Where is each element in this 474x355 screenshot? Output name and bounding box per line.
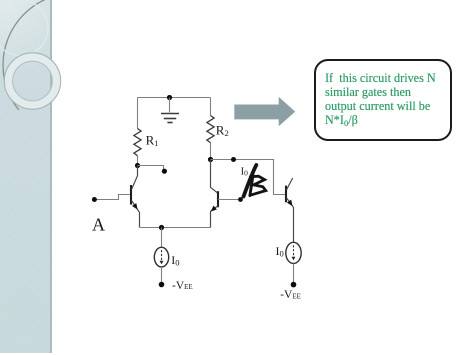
- node mid junction dot: [231, 157, 236, 162]
- svg-text:I0: I0: [241, 167, 249, 178]
- transistor Q1 collector: [132, 166, 138, 189]
- ring outer outline: [4, 53, 60, 109]
- node Q2 base terminal dot: [238, 197, 243, 202]
- callout green text box: [314, 59, 452, 141]
- svg-text:R2: R2: [216, 123, 229, 139]
- node tail junction dot: [159, 225, 164, 230]
- transistor Q1 base bar: [130, 185, 132, 205]
- svg-text:A: A: [92, 215, 105, 235]
- wire tail down: [161, 228, 163, 248]
- ground: [161, 98, 179, 123]
- node R1 bottom junction dot: [135, 163, 140, 168]
- resistor R1: [134, 129, 141, 156]
- wire emitter tail rail: [140, 227, 211, 229]
- transistor Q1 emitter: [132, 201, 140, 228]
- node R2 bottom junction dot: [208, 157, 213, 162]
- thick pale ring: [9, 57, 57, 105]
- node input A terminal dot: [92, 197, 97, 202]
- svg-text:I0: I0: [171, 253, 179, 268]
- transistor Q3 base bar: [285, 186, 287, 203]
- wire below left current source: [161, 267, 163, 284]
- wire output node to Q3 base: [211, 160, 286, 195]
- wire Q2 base tap: [218, 199, 240, 201]
- wire right branch upper: [210, 98, 212, 116]
- node top-center junction dot: [167, 95, 172, 100]
- transistor Q3 emitter: [287, 198, 294, 243]
- wire cross tap from R1 node: [138, 166, 164, 171]
- transistor Q3 collector: [287, 178, 293, 190]
- svg-text:-VEE: -VEE: [280, 289, 301, 301]
- light circle outline: [0, 1, 48, 56]
- transistor Q2 base bar: [217, 191, 219, 207]
- svg-text:-VEE: -VEE: [172, 280, 193, 292]
- transistor Q2 collector: [211, 160, 218, 193]
- wire left branch upper: [137, 98, 139, 129]
- wire input A lead: [94, 195, 129, 200]
- scribble beta glyph: [250, 175, 253, 195]
- wire below right current source: [293, 264, 295, 285]
- node -VEE left terminal dot: [159, 282, 165, 288]
- sidebar circle decorations: [0, 0, 80, 150]
- svg-text:R1: R1: [146, 132, 159, 148]
- svg-text:I0: I0: [276, 244, 284, 259]
- node -VEE right terminal dot: [291, 282, 297, 288]
- current source I0 right: [286, 242, 301, 263]
- sidebar background strip: [0, 0, 52, 353]
- wire below R1: [137, 156, 139, 166]
- block arrow pointing to callout: [234, 97, 295, 126]
- node tap terminal dot: [162, 169, 167, 174]
- wire below R2: [210, 143, 212, 160]
- wire top rail: [138, 97, 211, 99]
- current source I0 left: [154, 247, 168, 267]
- ring inner outline: [13, 61, 53, 101]
- resistor R2: [207, 116, 214, 143]
- scribble slash stroke: [244, 165, 257, 197]
- large dark arc circle: [3, 0, 147, 137]
- transistor Q2 emitter: [211, 206, 219, 228]
